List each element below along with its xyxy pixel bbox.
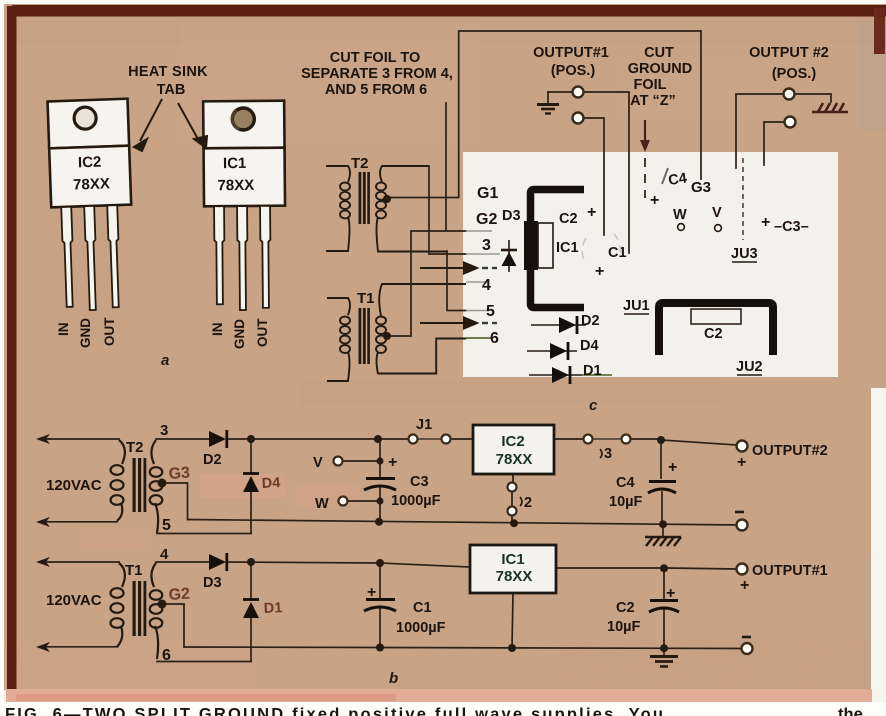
svg-text:C2: C2 xyxy=(616,600,635,616)
svg-text:T1: T1 xyxy=(357,290,375,307)
svg-text:IC2: IC2 xyxy=(78,154,102,172)
svg-text:3: 3 xyxy=(160,422,168,439)
svg-text:JU1: JU1 xyxy=(623,298,650,314)
svg-text:TAB: TAB xyxy=(157,82,186,98)
svg-text:JU3: JU3 xyxy=(731,246,758,262)
svg-text:10µF: 10µF xyxy=(607,619,640,635)
svg-text:CUT: CUT xyxy=(644,45,674,61)
svg-text:GROUND: GROUND xyxy=(628,61,692,77)
svg-text:C4: C4 xyxy=(616,475,635,491)
svg-text:+: + xyxy=(388,454,397,471)
svg-text:1000µF: 1000µF xyxy=(396,620,446,636)
svg-text:J1: J1 xyxy=(416,417,432,433)
svg-text:IN: IN xyxy=(56,323,71,337)
svg-text:IC1: IC1 xyxy=(223,155,246,172)
svg-text:V: V xyxy=(712,205,722,221)
svg-text:4: 4 xyxy=(160,546,169,563)
svg-text:T1: T1 xyxy=(125,562,143,579)
svg-text:78XX: 78XX xyxy=(73,175,110,193)
svg-text:6: 6 xyxy=(490,330,499,347)
svg-text:OUT: OUT xyxy=(255,318,270,347)
svg-text:4: 4 xyxy=(482,277,491,294)
svg-text:78XX: 78XX xyxy=(217,177,254,194)
svg-text:D4: D4 xyxy=(261,475,280,492)
svg-text:+: + xyxy=(761,214,770,231)
svg-text:W: W xyxy=(673,207,687,223)
svg-text:–C3–: –C3– xyxy=(774,219,809,235)
svg-text:c: c xyxy=(589,397,598,414)
svg-text:+: + xyxy=(740,577,749,594)
svg-text:FIG. 6—TWO SPLIT GROUND fixed: FIG. 6—TWO SPLIT GROUND fixed positive f… xyxy=(5,706,663,716)
svg-text:AND 5 FROM 6: AND 5 FROM 6 xyxy=(325,82,427,98)
svg-text:OUTPUT#1: OUTPUT#1 xyxy=(533,45,609,61)
svg-text:OUTPUT #2: OUTPUT #2 xyxy=(749,45,829,61)
svg-text:GND: GND xyxy=(232,319,247,349)
svg-text:C1: C1 xyxy=(608,245,627,261)
svg-text:C1: C1 xyxy=(413,600,432,616)
svg-text:T2: T2 xyxy=(351,155,369,172)
svg-text:G1: G1 xyxy=(477,185,498,202)
svg-text:D3: D3 xyxy=(502,208,521,224)
svg-text:+: + xyxy=(587,204,596,221)
svg-text:FOIL: FOIL xyxy=(633,77,666,93)
svg-text:G3: G3 xyxy=(168,465,191,483)
svg-text:(POS.): (POS.) xyxy=(772,66,816,82)
svg-text:IC1: IC1 xyxy=(556,240,579,256)
svg-text:C4: C4 xyxy=(667,171,688,189)
svg-text:D2: D2 xyxy=(203,452,222,468)
svg-text:T2: T2 xyxy=(126,439,144,456)
svg-text:120VAC: 120VAC xyxy=(46,477,102,494)
svg-text:(POS.): (POS.) xyxy=(551,63,595,79)
svg-text:a: a xyxy=(161,352,169,369)
svg-text:OUTPUT#2: OUTPUT#2 xyxy=(752,443,828,459)
svg-text:V: V xyxy=(313,455,323,471)
svg-text:G3: G3 xyxy=(691,179,711,196)
svg-text:OUT: OUT xyxy=(102,317,117,346)
svg-text:SEPARATE 3 FROM 4,: SEPARATE 3 FROM 4, xyxy=(301,66,453,82)
svg-text:5: 5 xyxy=(486,303,495,320)
svg-text:D1: D1 xyxy=(263,600,282,617)
svg-text:C2: C2 xyxy=(704,326,723,342)
svg-text:78XX: 78XX xyxy=(496,451,533,468)
svg-text:1000µF: 1000µF xyxy=(391,493,441,509)
svg-text:+: + xyxy=(595,263,604,280)
svg-text:GND: GND xyxy=(78,318,93,348)
svg-text:3: 3 xyxy=(482,237,491,254)
svg-text:G2: G2 xyxy=(168,586,191,604)
svg-text:D4: D4 xyxy=(580,338,599,354)
svg-text:G2: G2 xyxy=(476,211,497,228)
svg-text:HEAT SINK: HEAT SINK xyxy=(128,64,208,80)
svg-text:IC1: IC1 xyxy=(501,551,524,568)
svg-text:CUT FOIL TO: CUT FOIL TO xyxy=(330,50,421,66)
svg-text:D2: D2 xyxy=(581,313,600,329)
svg-text:AT “Z”: AT “Z” xyxy=(630,93,676,109)
svg-text:the: the xyxy=(838,706,863,716)
svg-text:JU2: JU2 xyxy=(736,359,763,375)
svg-text:b: b xyxy=(389,670,398,687)
svg-text:D1: D1 xyxy=(583,363,602,379)
svg-text:3: 3 xyxy=(604,446,612,462)
svg-text:IC2: IC2 xyxy=(501,433,524,450)
svg-text:120VAC: 120VAC xyxy=(46,592,102,609)
svg-text:6: 6 xyxy=(162,647,171,664)
svg-text:OUTPUT#1: OUTPUT#1 xyxy=(752,563,828,579)
svg-text:5: 5 xyxy=(162,517,171,534)
svg-text:IN: IN xyxy=(210,323,225,337)
svg-text:+: + xyxy=(737,454,746,471)
svg-text:2: 2 xyxy=(524,495,532,511)
svg-text:C2: C2 xyxy=(559,211,578,227)
svg-text:78XX: 78XX xyxy=(496,568,533,585)
svg-text:C3: C3 xyxy=(410,474,429,490)
svg-text:10µF: 10µF xyxy=(609,494,642,510)
svg-text:+: + xyxy=(650,192,659,209)
svg-text:+: + xyxy=(668,459,677,476)
svg-text:D3: D3 xyxy=(203,575,222,591)
svg-text:W: W xyxy=(315,496,329,512)
